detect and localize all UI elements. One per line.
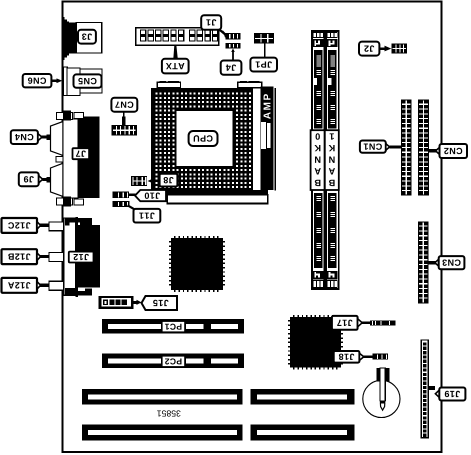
socket top tab right <box>238 81 262 88</box>
D-sub CN4 (upper trapezoid) <box>46 122 63 156</box>
jumper JP1 (2x3 header) <box>254 33 274 44</box>
connector J4 (4-pin header) <box>225 43 240 48</box>
J7 top tab <box>57 111 84 121</box>
label CN2 with pointer <box>429 144 467 158</box>
label J12C with pointer <box>2 218 49 233</box>
connector J7 group: rear block <box>78 117 99 198</box>
connector J2 (2x4 header) <box>392 44 407 54</box>
label J8 with pointer <box>148 174 178 187</box>
ZIF lever bar <box>167 195 267 204</box>
board number 35851 <box>157 410 180 416</box>
label CPU <box>189 131 218 146</box>
connector CN7 (2x6 header) <box>112 125 138 136</box>
IC chip (QFP, bottom right) <box>288 315 343 370</box>
connector CN1 <box>401 100 412 196</box>
connector CN3 <box>418 221 429 303</box>
ISA slot 2 <box>82 425 355 441</box>
label ATX with pointer <box>162 46 189 74</box>
label J17 with pointer <box>332 316 370 330</box>
battery with holder <box>363 368 400 418</box>
connector J12 group: bracket column <box>64 218 76 295</box>
socket foot band <box>253 190 268 195</box>
connector J15 (4-pin) <box>98 296 133 309</box>
connector J8 (2x4 header) <box>131 176 147 186</box>
connector J1 (4-pin header) <box>225 33 240 39</box>
label J1 with pointer <box>201 15 228 37</box>
SIMM socket BANK1 <box>325 31 339 289</box>
J12 spine bar <box>75 217 78 297</box>
label J3 <box>78 30 96 44</box>
PCI slot PC1 <box>102 319 244 334</box>
connector J11 (4-pin) <box>113 201 130 207</box>
connector J10 (4-pin) <box>113 192 130 199</box>
mid tab <box>56 156 63 162</box>
label CN1 with pointer <box>360 141 401 153</box>
connector CN5 stack <box>63 67 102 95</box>
label CN6 with pointer <box>23 74 63 87</box>
label CN4 with pointer <box>11 130 47 144</box>
label J11 with pointer <box>128 205 161 222</box>
label J15 with pointer <box>133 296 177 310</box>
connector J3 box <box>76 23 102 54</box>
SIMM socket BANK0 <box>311 31 325 289</box>
J7 bracket column <box>63 119 78 198</box>
label J12A with pointer <box>2 278 49 293</box>
label J4 with pointer <box>221 49 242 75</box>
connector J18 (pin strip) <box>373 354 389 360</box>
jack J12C <box>49 222 64 231</box>
label JP1 with pointer <box>250 44 277 72</box>
J7 bottom tab <box>57 196 84 206</box>
ATX power connector (2x10 header) <box>136 28 219 46</box>
CPU inner plate <box>177 111 233 166</box>
IC chip (QFP, middle) <box>169 236 225 292</box>
ISA slot 1 <box>82 389 355 405</box>
label CN7 with pointer <box>111 98 137 125</box>
jack J12B <box>49 253 64 262</box>
J12 rear block <box>65 218 100 296</box>
label J18 with pointer <box>334 351 373 363</box>
label J10 with pointer <box>129 190 166 201</box>
label CN3 with pointer <box>429 256 465 269</box>
AMP slot rail <box>275 88 277 191</box>
connector J19 (pin strip) <box>421 340 428 438</box>
connector J17 (pin strip) <box>370 320 395 325</box>
label CN5 <box>74 74 102 87</box>
label J7 <box>73 148 90 159</box>
D-sub J9 (lower trapezoid) <box>46 163 63 196</box>
keyboard connector (top-left DIN) <box>62 17 77 60</box>
socket top tab left <box>157 81 180 88</box>
label J12B with pointer <box>2 249 49 264</box>
label J2 with pointer <box>359 42 391 56</box>
AMP slot body <box>261 87 274 191</box>
CPU socket (PGA) <box>151 88 253 195</box>
jack J12A <box>49 281 64 290</box>
label J19 with pointer <box>428 386 465 401</box>
connector CN2 <box>418 100 429 196</box>
PCI slot PC2 <box>102 354 244 369</box>
label J12 <box>69 252 94 263</box>
label J9 with pointer <box>19 172 51 186</box>
